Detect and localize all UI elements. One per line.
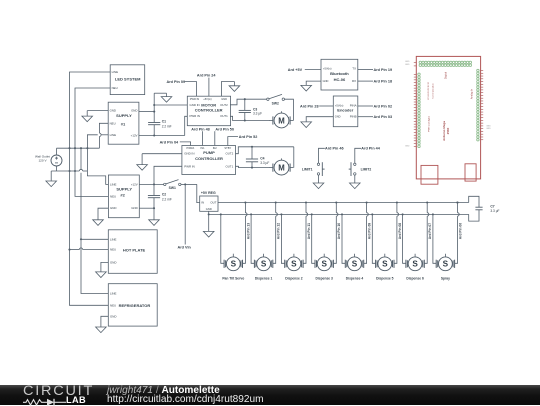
wire Ard Pin 52 to STBY: [228, 137, 238, 146]
block REFRIGERATOR: [108, 284, 157, 326]
svg-text:Pan Tilt Servo: Pan Tilt Servo: [222, 277, 244, 281]
svg-text:GND IN: GND IN: [184, 152, 194, 156]
svg-text:+5V(in): +5V(in): [203, 97, 212, 101]
node gnd net junction: [153, 111, 155, 113]
svg-text:Ard Pin 07: Ard Pin 07: [428, 223, 432, 239]
svg-text:+5V(in): +5V(in): [323, 67, 332, 71]
wire motor controller GND IN: [154, 104, 187, 106]
svg-text:Digital: Digital: [444, 71, 448, 79]
svg-text:OUT2: OUT2: [225, 152, 233, 156]
svg-text:+12V: +12V: [131, 134, 138, 138]
svg-text:PWRA: PWRA: [187, 146, 195, 150]
svg-text:NEU: NEU: [110, 194, 116, 198]
block LED SYSTEM: [110, 65, 145, 95]
wire bluetooth TX to Ard Pin 19: [358, 69, 373, 71]
svg-text:LINE: LINE: [110, 292, 116, 296]
svg-text:GND: GND: [110, 109, 116, 113]
wire Ard Vin net label: [184, 184, 186, 244]
svg-text:Ard Pin 46: Ard Pin 46: [325, 147, 344, 151]
servo M8 Dispense 5: [376, 254, 394, 281]
ground at hot plate GND: [101, 262, 108, 272]
svg-text:Ard +5V: Ard +5V: [288, 68, 303, 72]
servo Spray wiring: [432, 201, 459, 263]
wire vertical bus x69.5 LED LINE to refrigerator NEU: [70, 72, 111, 305]
svg-text:RX: RX: [352, 79, 356, 83]
ground below C2: [153, 208, 155, 220]
ground below LIMIT1: [313, 175, 324, 189]
ground at supply2 GND left: [98, 208, 108, 220]
svg-text:+5V REG: +5V REG: [201, 191, 216, 195]
svg-text:Ard Pin 06: Ard Pin 06: [458, 223, 462, 239]
ground at bluetooth GND: [306, 81, 321, 85]
svg-text:S: S: [382, 260, 388, 269]
svg-text:PUMP: PUMP: [203, 150, 215, 155]
svg-text:S: S: [443, 260, 449, 269]
ground at pump GND IN: [142, 153, 182, 155]
wire SW1 out junction: [181, 183, 197, 185]
wire encoder PINB to Ard Pin 03: [358, 116, 373, 118]
wire vertical bus x75 LED NEU to supply2 NEU: [75, 88, 110, 196]
wire pump OUT1 to motor M2 left: [236, 166, 271, 167]
svg-text:SW1: SW1: [169, 186, 176, 190]
wire Ard Pin 09 to motor controller: [185, 82, 197, 97]
Arduino mounting square 2: [465, 164, 476, 181]
Arduino left pin column: [414, 73, 420, 147]
svg-text:3.3 µF: 3.3 µF: [253, 112, 262, 116]
ground at supply1 GND left: [87, 110, 108, 112]
svg-text:STBY: STBY: [224, 146, 231, 150]
svg-text:C1: C1: [162, 119, 166, 123]
node +12V junction: [153, 134, 155, 136]
svg-text:Ard Pin 09: Ard Pin 09: [368, 223, 372, 239]
wire supply1 GND right to gnd net: [139, 111, 154, 113]
svg-text:Ard Pin 48: Ard Pin 48: [191, 128, 210, 132]
CircuitLab logo CIRCUIT text: [23, 384, 94, 399]
wire Ard Pin 48 to IN1: [202, 131, 204, 145]
svg-text:GND: GND: [405, 64, 410, 66]
CircuitLab logo resistor diode symbol and LAB: [23, 397, 93, 406]
servo Dispense 3 wiring: [311, 201, 338, 263]
svg-text:Ard Vin: Ard Vin: [178, 245, 192, 249]
wire +5V REG OUT to 5V rail: [218, 202, 469, 204]
svg-text:Ard Pin 10: Ard Pin 10: [337, 223, 341, 239]
svg-text:HOT PLATE: HOT PLATE: [123, 248, 146, 253]
svg-text:3.3 µF: 3.3 µF: [490, 209, 499, 213]
svg-text:PWR IN: PWR IN: [184, 164, 194, 168]
wire outlet top stub: [56, 148, 58, 155]
Arduino right pin column: [477, 69, 484, 141]
svg-text:Ard Pin 19: Ard Pin 19: [374, 68, 393, 72]
svg-text:S: S: [321, 260, 327, 269]
svg-text:GND: GND: [110, 314, 116, 318]
ground above motor controller left: [154, 92, 166, 94]
wire outlet bottom stub: [56, 166, 58, 171]
svg-text:Dispense 2: Dispense 2: [285, 277, 303, 281]
svg-text:#1: #1: [121, 121, 126, 126]
svg-text:PWR IN: PWR IN: [190, 114, 200, 118]
svg-text:22 24 26 28 30 32: 22 24 26 28 30 32: [428, 81, 430, 99]
svg-text:CONTROLLER: CONTROLLER: [195, 156, 223, 161]
svg-text:Dispense 5: Dispense 5: [376, 277, 394, 281]
block U2 PUMP CONTROLLER: [182, 146, 236, 175]
svg-text:Ard Pin 44: Ard Pin 44: [361, 147, 380, 151]
motor M1: [270, 120, 273, 122]
node hot plate NEU tee: [68, 249, 70, 251]
Arduino Mega 2560 board outline: [416, 56, 480, 178]
svg-text:GND: GND: [486, 125, 491, 127]
svg-text:OUT: OUT: [210, 201, 216, 205]
block HOT PLATE: [108, 230, 157, 273]
svg-text:HC-06: HC-06: [334, 77, 346, 82]
node junctions on line rail: [68, 170, 70, 172]
svg-text:IN: IN: [201, 201, 204, 205]
svg-text:LIMIT2: LIMIT2: [361, 167, 372, 171]
servo Dispense 2 wiring: [280, 201, 307, 263]
svg-text:OUT1: OUT1: [225, 164, 233, 168]
svg-text:NEU: NEU: [110, 248, 116, 252]
wire pump OUT2 upper path: [236, 147, 294, 154]
svg-text:S: S: [291, 260, 297, 269]
svg-text:REFRIGERATOR: REFRIGERATOR: [119, 303, 151, 308]
ground below wall outlet: [50, 171, 52, 181]
wire bluetooth RX to Ard Pin 18: [358, 80, 373, 82]
capacitor C4: [251, 147, 253, 159]
wire supply1 NEU: [99, 123, 108, 133]
svg-text:GND: GND: [131, 109, 137, 113]
svg-text:LINE: LINE: [110, 237, 116, 241]
svg-text:Ard Pin 12: Ard Pin 12: [277, 223, 281, 239]
svg-text:GND: GND: [131, 206, 137, 210]
footer title line: [107, 385, 220, 396]
servo M6 Dispense 3: [315, 254, 333, 281]
svg-text:GND IN: GND IN: [190, 103, 200, 107]
svg-text:TX: TX: [352, 67, 356, 71]
svg-text:S: S: [231, 260, 237, 269]
wire Ard Pin 50 to IN2: [214, 131, 216, 145]
servo M7 Dispense 4: [345, 254, 363, 281]
svg-text:LIMIT1: LIMIT1: [302, 167, 313, 171]
svg-text:GND: GND: [486, 128, 491, 130]
block +5V REG: [200, 196, 218, 211]
svg-text:OUT2: OUT2: [220, 103, 228, 107]
svg-text:GND: GND: [110, 260, 116, 264]
wire motor controller OUT1 to motor M1: [230, 116, 270, 120]
svg-text:Dispense 1: Dispense 1: [255, 277, 273, 281]
svg-text:GND: GND: [110, 206, 116, 210]
svg-text:S: S: [352, 260, 358, 269]
svg-text:Spray: Spray: [441, 277, 450, 281]
wire pump PWR IN to +12V supply2: [154, 166, 182, 184]
servo M10 Spray: [436, 254, 454, 281]
capacitor C7: [475, 206, 482, 208]
svg-text:GND: GND: [221, 97, 227, 101]
Arduino top pin header double row: [414, 61, 472, 66]
svg-text:NEU: NEU: [110, 303, 116, 307]
Arduino top header left exit ticks: [414, 61, 417, 63]
svg-text:LED SYSTEM: LED SYSTEM: [115, 76, 141, 81]
servo Dispense 1 wiring: [250, 201, 277, 263]
wire supply2 GND right: [139, 207, 154, 209]
svg-text:Ard Pin 08: Ard Pin 08: [398, 223, 402, 239]
svg-text:Dispense 6: Dispense 6: [406, 277, 424, 281]
wire motor controller OUT2 to SW2: [230, 99, 267, 105]
wire pump OUT2 down to motor M2 right: [293, 147, 295, 168]
svg-text:PINB: PINB: [350, 115, 357, 119]
svg-text:Ard Pin 50: Ard Pin 50: [215, 128, 234, 132]
svg-text:M: M: [278, 116, 285, 125]
svg-text:C2: C2: [162, 193, 166, 197]
svg-text:120 V: 120 V: [38, 159, 47, 163]
wire GND rail to C7: [469, 210, 479, 221]
wire vertical bus x81 to refrigerator LINE: [80, 148, 82, 169]
svg-text:2560: 2560: [446, 127, 450, 134]
servo Dispense 5 wiring: [371, 201, 398, 263]
servo M5 Dispense 2: [285, 254, 303, 281]
svg-text:SUPPLY: SUPPLY: [116, 113, 132, 118]
wire to +5V REG IN: [197, 184, 200, 202]
block Encoder: [333, 96, 358, 127]
svg-text:GND: GND: [405, 145, 410, 147]
svg-text:GND: GND: [335, 115, 341, 119]
wire C1 bottom to +12V rail: [153, 125, 155, 136]
svg-text:Ard Pin 09: Ard Pin 09: [167, 80, 186, 84]
wire GND rail: [209, 213, 469, 215]
svg-text:Communication: Communication: [432, 83, 435, 99]
capacitor C2: [153, 184, 155, 195]
svg-text:2.2 mF: 2.2 mF: [162, 124, 172, 128]
block SUPPLY #2: [108, 175, 139, 218]
svg-text:Encoder: Encoder: [337, 107, 353, 112]
svg-text:Ard Pin 18: Ard Pin 18: [374, 80, 393, 84]
svg-text:GND: GND: [405, 61, 410, 63]
svg-text:Ard Pin 03: Ard Pin 03: [374, 115, 393, 119]
svg-text:SUPPLY: SUPPLY: [116, 186, 132, 191]
wire 5V rail to C7: [469, 196, 479, 207]
Arduino mounting square 1: [421, 165, 438, 184]
svg-text:3.3 µF: 3.3 µF: [260, 161, 269, 165]
voltage source V1 wall outlet: [51, 155, 62, 166]
servo Pan Tilt Servo wiring: [220, 201, 247, 263]
servo Dispense 6 wiring: [402, 201, 429, 263]
servo Dispense 4 wiring: [341, 201, 368, 263]
ground at refrigerator GND: [101, 316, 108, 327]
capacitor C1: [148, 122, 160, 124]
svg-text:Analog In: Analog In: [470, 88, 473, 99]
ground below LIMIT2: [350, 175, 361, 189]
svg-text:Ard Pin 11: Ard Pin 11: [307, 223, 311, 239]
svg-text:PWR IN: PWR IN: [190, 97, 199, 101]
svg-text:NEU: NEU: [110, 121, 116, 125]
svg-text:2.2 mF: 2.2 mF: [162, 197, 172, 201]
wire Ard Pin 24 to motor controller: [208, 78, 210, 97]
wire LIMIT1 to Ard Pin 46: [319, 147, 344, 164]
wire SW2 to motor M1 right: [285, 99, 294, 120]
svg-text:C4: C4: [260, 156, 264, 160]
motor M2: [270, 167, 273, 169]
svg-text:Ard Pin 13: Ard Pin 13: [246, 223, 250, 239]
svg-text:LINE: LINE: [112, 70, 118, 74]
svg-text:LINE: LINE: [110, 133, 116, 137]
svg-text:M: M: [278, 163, 285, 172]
wire supply2 +12V to SW1: [139, 183, 163, 185]
block Bluetooth HC-06: [321, 59, 358, 90]
pushbutton LIMIT1: [302, 162, 325, 176]
wire LIMIT2 to Ard Pin 44: [355, 147, 381, 164]
capacitor C3: [244, 99, 246, 110]
svg-text:Ard Pin 04: Ard Pin 04: [160, 141, 179, 145]
svg-text:SW2: SW2: [272, 101, 279, 105]
wire line horizontal from outlet bottom: [51, 170, 79, 172]
ground at encoder GND: [306, 117, 333, 122]
svg-text:Ard Pin 02: Ard Pin 02: [374, 104, 393, 108]
svg-text:Ard Pin 28: Ard Pin 28: [300, 104, 319, 108]
block SUPPLY #1: [108, 102, 139, 144]
wire +5V REG GND down: [208, 211, 210, 231]
wire neutral horizontal from outlet top: [57, 147, 100, 149]
node junctions on neutral rail: [68, 147, 70, 149]
ground below +5V REG: [203, 231, 214, 237]
node hot plate LINE junction: [80, 238, 82, 240]
svg-text:Ard Pin 24: Ard Pin 24: [197, 74, 216, 78]
svg-text:S: S: [412, 260, 418, 269]
svg-text:GND: GND: [323, 79, 329, 83]
servo M3 Pan Tilt Servo: [222, 254, 244, 281]
footer bar: [0, 385, 540, 405]
servo M4 Dispense 1: [254, 254, 272, 281]
pushbutton LIMIT2: [349, 162, 372, 176]
svg-text:#2: #2: [120, 193, 125, 198]
block U1 MOTOR CONTROLLER: [187, 96, 230, 126]
svg-text:GND: GND: [206, 207, 212, 211]
wire hot plate NEU with hop: [70, 249, 80, 251]
wire Ard Pin 04 to PWRA: [180, 142, 191, 146]
svg-text:S: S: [261, 260, 267, 269]
wire supply1 LINE: [101, 134, 108, 136]
wire line path to supply2: [87, 171, 108, 184]
footer url line: [107, 394, 264, 405]
wire encoder PINA to Ard Pin 02: [358, 105, 373, 107]
svg-text:NEU: NEU: [112, 86, 118, 90]
svg-text:Ard Pin 52: Ard Pin 52: [239, 135, 258, 139]
svg-text:CONTROLLER: CONTROLLER: [195, 107, 223, 112]
switch SW2: [267, 98, 269, 100]
wire +12V rail supply1 to motor controller PWR IN: [139, 135, 185, 137]
wire gnd net vertical: [153, 93, 155, 122]
servo M9 Dispense 6: [406, 254, 424, 281]
svg-text:PWM and digital: PWM and digital: [428, 116, 431, 132]
wire hot plate LINE: [81, 238, 108, 240]
ground at motor controller GND top: [222, 82, 235, 97]
svg-text:Dispense 3: Dispense 3: [315, 277, 333, 281]
svg-text:Dispense 4: Dispense 4: [346, 277, 364, 281]
svg-text:OUT1: OUT1: [220, 114, 228, 118]
svg-text:Bluetooth: Bluetooth: [330, 71, 349, 76]
switch SW1: [164, 183, 166, 185]
